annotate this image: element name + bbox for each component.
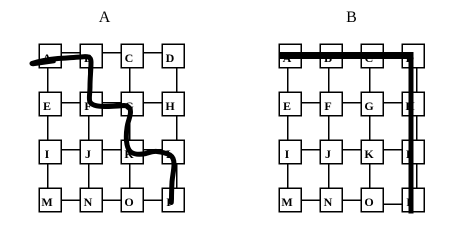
svg-text:O: O [124,195,133,209]
svg-text:M: M [41,195,52,209]
svg-text:N: N [84,195,93,209]
svg-text:M: M [281,195,292,209]
svg-text:C: C [125,51,134,65]
svg-text:G: G [364,99,373,113]
svg-text:O: O [364,195,373,209]
svg-text:J: J [85,147,91,161]
svg-text:E: E [43,99,51,113]
svg-text:D: D [166,51,175,65]
svg-text:A: A [99,9,111,26]
svg-text:I: I [285,147,290,161]
svg-text:K: K [364,147,374,161]
svg-text:E: E [283,99,291,113]
svg-text:B: B [346,9,357,26]
svg-text:I: I [45,147,50,161]
svg-text:N: N [324,195,333,209]
svg-text:J: J [325,147,331,161]
svg-text:H: H [165,99,175,113]
svg-text:F: F [324,99,331,113]
